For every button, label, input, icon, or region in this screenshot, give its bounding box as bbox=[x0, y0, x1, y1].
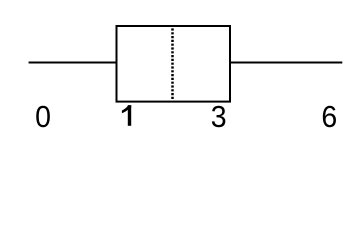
left whisker (min 0 to Q1) bbox=[29, 62, 117, 64]
right whisker (Q3 to max 6) bbox=[230, 62, 342, 64]
box (Q1=1 to Q3=3) bbox=[117, 26, 231, 102]
median dotted line (median=2) bbox=[171, 28, 174, 99]
svg-text:3: 3 bbox=[211, 100, 227, 134]
tick label 1 (drawn as path, Arial-style footless one) bbox=[122, 105, 131, 126]
svg-text:6: 6 bbox=[321, 100, 337, 134]
svg-text:0: 0 bbox=[35, 100, 51, 134]
